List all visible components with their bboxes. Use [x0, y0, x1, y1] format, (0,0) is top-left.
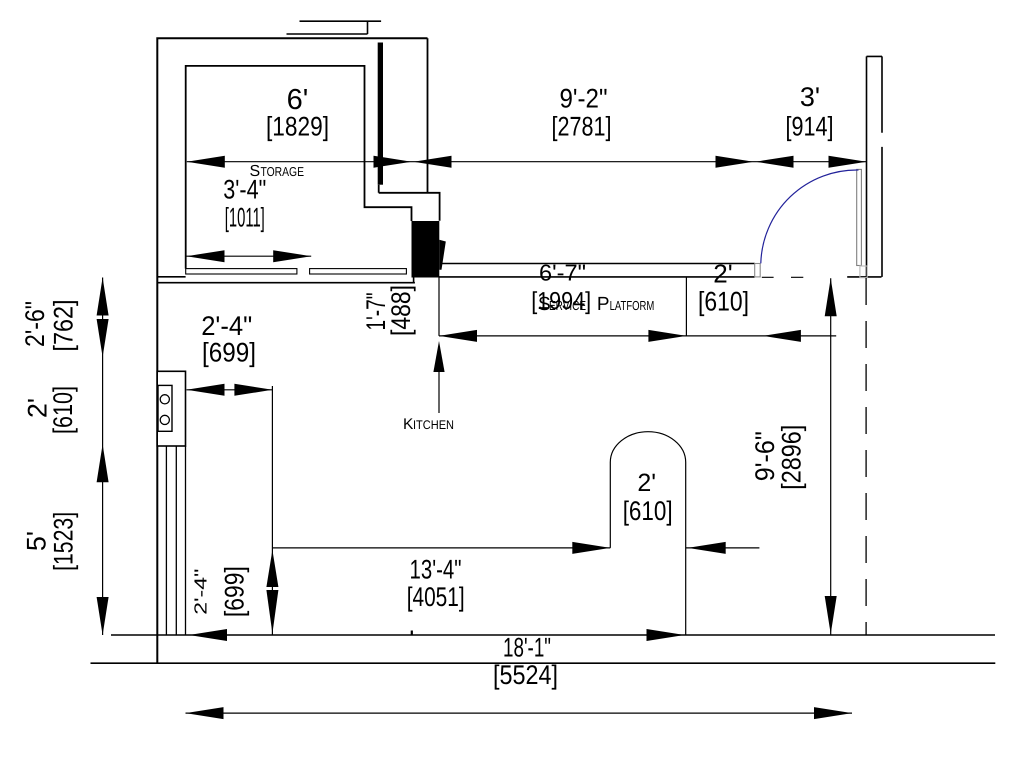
dim line 2ft4 top	[187, 389, 273, 391]
dim line top chain	[187, 161, 867, 163]
svg-text:[699]: [699]	[220, 566, 250, 617]
svg-text:6'-7": 6'-7"	[539, 260, 586, 286]
dim line 3ft4	[187, 255, 312, 257]
arrow bottom left	[186, 707, 224, 719]
svg-text:[699]: [699]	[202, 338, 256, 368]
arrow 9ft2 left	[414, 156, 452, 168]
dim line 6ft7	[439, 277, 836, 336]
wall storage inner	[186, 66, 412, 269]
fixture knob 2	[160, 415, 169, 424]
svg-text:TORAGE: TORAGE	[261, 164, 305, 179]
svg-text:2': 2'	[713, 259, 732, 289]
door end cap gray	[860, 266, 867, 278]
svg-text:3'-4": 3'-4"	[223, 175, 266, 205]
wall kitchen north	[157, 278, 415, 283]
svg-text:[762]: [762]	[49, 300, 79, 352]
arrow 2ft4 right	[234, 384, 272, 396]
wall black bar	[378, 43, 383, 185]
dim line 18ft1 arrows	[189, 629, 227, 641]
arrow arch right	[688, 542, 726, 554]
svg-text:LATFORM: LATFORM	[610, 298, 655, 313]
arrow 9ft6 down	[825, 596, 837, 634]
svg-text:2'-4": 2'-4"	[191, 569, 211, 615]
wire tick above bottom line	[411, 631, 413, 636]
svg-text:[610]: [610]	[698, 287, 749, 317]
arrow 13ft4 right	[572, 542, 610, 554]
wall storage outer right with step	[379, 38, 440, 221]
wire top ledge lines	[287, 21, 382, 34]
wire extension vertical x272	[271, 386, 273, 635]
arrow 9ft2 right	[716, 156, 754, 168]
svg-text:5': 5'	[22, 531, 52, 551]
svg-text:ITCHEN: ITCHEN	[413, 418, 454, 432]
fixture stove inner	[158, 385, 172, 431]
svg-text:[610]: [610]	[623, 496, 673, 526]
arrow 6ft7 left	[439, 330, 477, 342]
wall right	[867, 56, 883, 277]
arrow 9ft6 up	[825, 278, 837, 316]
arrow left dim up mid	[97, 444, 109, 482]
svg-text:[1829]: [1829]	[266, 112, 329, 142]
arrow 2ft4 left	[187, 384, 225, 396]
svg-text:13'-4": 13'-4"	[410, 555, 462, 585]
wire dashed property line	[865, 278, 867, 635]
svg-text:[4051]: [4051]	[407, 582, 465, 612]
svg-text:3': 3'	[800, 82, 820, 112]
svg-text:[1523]: [1523]	[49, 512, 79, 571]
wire bottom line 1	[111, 634, 995, 636]
leader kitchen	[438, 372, 440, 413]
door leaf gray right	[857, 169, 862, 265]
dim line left vertical	[102, 278, 104, 636]
door black leaf storage	[412, 221, 440, 278]
shelf band 2	[310, 269, 407, 274]
svg-text:2'-4": 2'-4"	[201, 311, 252, 341]
arrow 2ft platform	[763, 330, 801, 342]
arrow 3ft left	[756, 156, 794, 168]
wire bottom line 2	[91, 662, 996, 664]
arrow 3ft right	[829, 156, 867, 168]
arrow 2ft4 vert down	[266, 590, 278, 634]
arch opening	[610, 432, 685, 635]
svg-text:[5524]: [5524]	[493, 660, 558, 690]
door swing arc blue	[761, 170, 859, 263]
svg-text:[2896]: [2896]	[777, 425, 807, 490]
svg-text:[914]: [914]	[786, 112, 834, 142]
arrow left dim down	[97, 597, 109, 635]
wire threshold segments	[762, 276, 804, 278]
wall right of door	[847, 276, 881, 278]
arrow 6ft7 right	[648, 330, 686, 342]
svg-text:[488]: [488]	[386, 285, 416, 336]
arrow 3ft4 right	[273, 250, 311, 262]
svg-text:P: P	[597, 294, 610, 315]
svg-text:9'-6": 9'-6"	[750, 431, 780, 481]
wall storage outer	[157, 38, 427, 663]
arrow 3ft4 left	[187, 250, 225, 262]
arrow left dim down mid	[97, 319, 109, 357]
dim line 13ft4	[272, 547, 759, 549]
arrow 2ft4 vert up	[266, 550, 278, 587]
wall stripes below stove	[166, 446, 185, 635]
wall service platform band	[442, 263, 755, 265]
shelf band 1	[186, 269, 297, 274]
svg-text:ERVICE: ERVICE	[549, 298, 586, 313]
svg-text:2'-6": 2'-6"	[20, 301, 50, 347]
arrow 6ft right	[374, 156, 412, 168]
arrow bottom right	[814, 707, 852, 719]
door jamb cap left	[755, 264, 761, 277]
arrow left dim up	[97, 278, 109, 316]
fixture knob 1	[160, 395, 169, 404]
dim line bottom overall	[186, 712, 853, 714]
svg-text:9'-2": 9'-2"	[560, 84, 608, 114]
fixture stove outer	[157, 371, 185, 446]
svg-text:[610]: [610]	[48, 386, 78, 434]
dim line 9ft6 vertical	[830, 278, 832, 635]
wall storage bottom left	[157, 276, 185, 278]
svg-text:[2781]: [2781]	[552, 112, 612, 142]
arrow 6ft left	[187, 156, 225, 168]
svg-text:[1011]: [1011]	[225, 203, 265, 233]
svg-text:2': 2'	[637, 469, 656, 497]
svg-text:18'-1": 18'-1"	[503, 633, 551, 663]
